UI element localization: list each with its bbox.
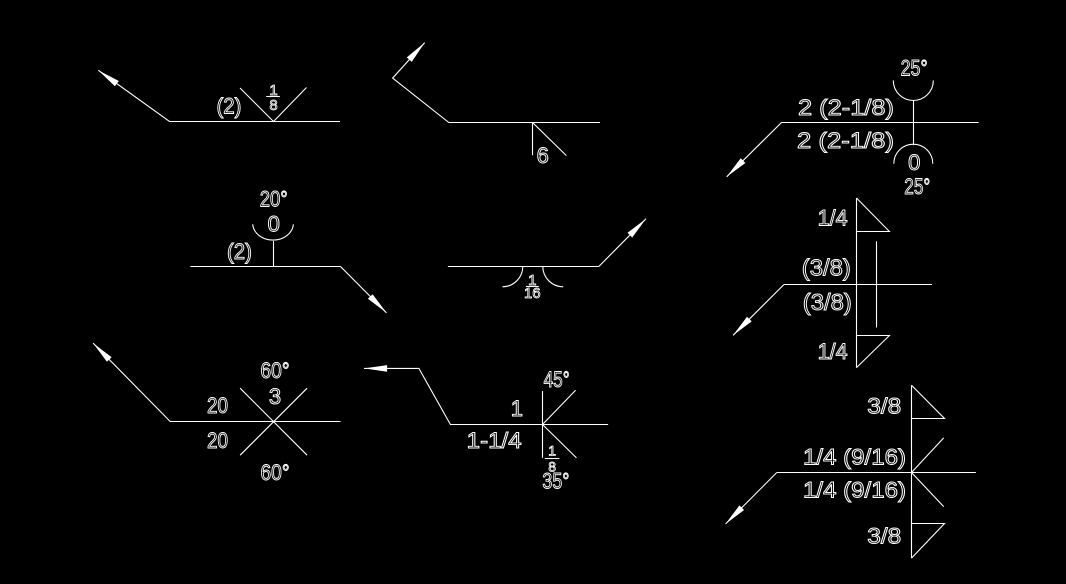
weld symbol W6 leader arrow	[733, 317, 752, 336]
weld symbol W1 V-groove	[240, 88, 307, 122]
wire W7 leader line	[93, 343, 340, 421]
svg-text:(3/8): (3/8)	[803, 289, 852, 315]
svg-text:35°: 35°	[542, 468, 569, 493]
weld symbol W8 double bevel	[543, 390, 577, 458]
weld symbol W3 U-groove arc arrow side	[894, 144, 933, 164]
svg-text:1/4: 1/4	[818, 339, 848, 364]
weld symbol W3 U-groove stem	[913, 101, 915, 146]
weld symbol W7 double V-groove	[240, 388, 307, 455]
svg-text:2 (2-1/8): 2 (2-1/8)	[798, 95, 894, 120]
weld symbol W3 U-groove arc other side	[893, 81, 933, 101]
weld symbol W9 fillet bottom	[912, 524, 945, 559]
wire W5 leader line	[599, 219, 646, 267]
weld symbol W9 fillet top	[912, 385, 945, 418]
wire W8 leader line	[364, 368, 608, 424]
svg-text:3: 3	[269, 384, 281, 409]
wire W6 leader line	[733, 285, 784, 336]
svg-text:25°: 25°	[901, 56, 928, 81]
weld symbol W5 leader arrow	[628, 219, 647, 238]
weld symbol W1 leader arrow	[98, 70, 119, 86]
svg-text:60°: 60°	[261, 460, 290, 485]
svg-text:45°: 45°	[544, 367, 570, 392]
weld symbol W6 fillet bottom	[857, 336, 890, 368]
weld symbol W9 bevel below	[912, 473, 944, 507]
wire W3 leader line	[727, 123, 782, 177]
svg-text:60°: 60°	[261, 358, 290, 383]
svg-text:1: 1	[548, 443, 556, 459]
svg-text:1/4 (9/16): 1/4 (9/16)	[803, 478, 906, 503]
wire W4 reference line	[190, 266, 340, 268]
wire W6 weld symbol vertical	[856, 198, 858, 368]
weld symbol W4 leader arrow	[368, 294, 387, 313]
weld symbol W6 square groove second line	[876, 241, 878, 327]
svg-text:3/8: 3/8	[867, 524, 901, 549]
weld symbol W5 flare-V left arc	[502, 266, 522, 286]
wire W9 leader line	[726, 473, 777, 525]
svg-text:8: 8	[269, 97, 277, 114]
svg-text:(2): (2)	[227, 239, 252, 264]
weld symbol W7 leader arrow	[93, 343, 112, 362]
wire W3 reference line	[782, 122, 979, 124]
svg-text:(2): (2)	[217, 94, 242, 119]
svg-text:20: 20	[207, 428, 228, 453]
weld symbol W4 U-groove arc	[253, 224, 294, 240]
svg-text:1-1/4: 1-1/4	[467, 428, 522, 453]
wire W5 reference line	[448, 266, 599, 268]
weld symbol W9 bevel above	[912, 438, 944, 473]
weld symbol W3 leader arrow	[727, 158, 746, 177]
svg-text:6: 6	[537, 143, 549, 168]
wire W4 leader line	[341, 267, 387, 313]
svg-text:1/4 (9/16): 1/4 (9/16)	[803, 445, 906, 470]
svg-text:1: 1	[511, 396, 523, 421]
svg-text:0: 0	[268, 212, 280, 237]
weld symbol W6 fillet top	[857, 198, 890, 232]
svg-text:(3/8): (3/8)	[802, 255, 851, 281]
svg-text:0: 0	[908, 150, 920, 175]
weld symbol W5 flare-V right arc	[543, 266, 563, 286]
weld symbol W4 U-groove stem	[273, 241, 275, 266]
svg-text:2 (2-1/8): 2 (2-1/8)	[797, 128, 894, 153]
weld symbol W9 leader arrow	[726, 505, 745, 524]
wire W6 reference line	[784, 284, 932, 286]
svg-text:16: 16	[524, 285, 541, 302]
weld symbol W2 leader arrow	[407, 43, 425, 62]
wire W9 reference line	[777, 472, 976, 474]
wire W9 weld symbol vertical	[911, 385, 913, 558]
wire W2 leader line	[393, 43, 600, 123]
wire W1 leader line	[98, 70, 340, 121]
svg-text:20: 20	[207, 393, 228, 418]
svg-text:25°: 25°	[904, 174, 930, 199]
svg-text:20°: 20°	[260, 186, 288, 211]
svg-text:3/8: 3/8	[867, 394, 901, 419]
weld symbol W8 leader arrow	[364, 365, 387, 372]
weld symbol W2 bevel groove	[533, 123, 567, 156]
svg-text:1/4: 1/4	[818, 205, 848, 230]
